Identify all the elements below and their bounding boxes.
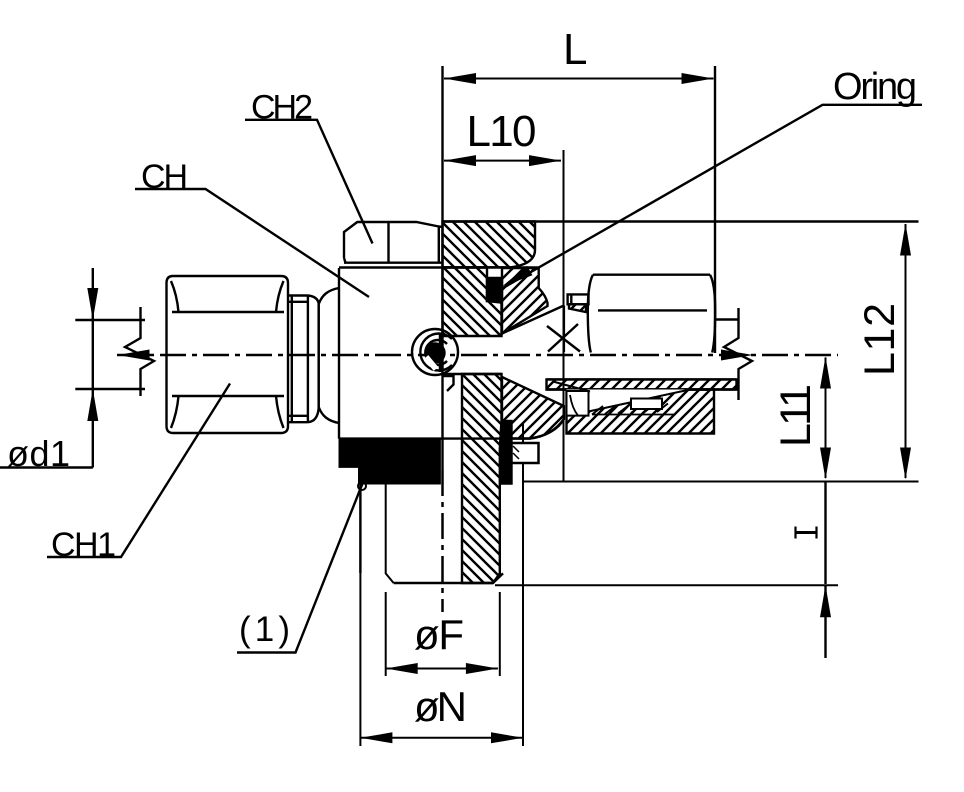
svg-text:L: L — [563, 25, 587, 74]
leader Oring — [503, 105, 922, 288]
arrow oF left — [386, 663, 418, 674]
leader CH2 — [245, 120, 373, 244]
dimension od1 line — [92, 268, 94, 468]
svg-text:L10: L10 — [467, 107, 537, 156]
wire: oN extension right — [522, 424, 524, 746]
stud right OD chamfer — [493, 573, 503, 583]
svg-text:L11: L11 — [772, 384, 820, 447]
svg-text:øN: øN — [414, 683, 467, 730]
right tube OD bottom — [547, 388, 737, 390]
left nut hex flat lines — [172, 312, 284, 396]
cone X detail — [547, 324, 580, 352]
stud bottom face — [394, 582, 493, 584]
dimension L — [444, 78, 714, 80]
svg-text:L12: L12 — [856, 303, 904, 376]
right tube bore line — [547, 378, 737, 380]
neck groove — [317, 304, 320, 409]
dimension L10 — [444, 160, 561, 162]
bore drill cone detail — [443, 376, 454, 391]
body bottom edge — [339, 419, 564, 439]
bolt cross-hole band bottom edge — [443, 373, 502, 375]
arrow L11 top — [820, 357, 831, 389]
ferrule wedge white — [567, 390, 691, 413]
arrow L11 bottom — [820, 448, 831, 480]
wire: extension line y=481.5 — [522, 481, 919, 483]
wire: extension line y=585.3 — [495, 584, 838, 586]
body lower right section hatched — [502, 377, 564, 439]
right tube wall band hatched — [547, 379, 737, 389]
left break arrow — [118, 350, 150, 361]
body left face — [338, 268, 340, 439]
nut thread sawtooth — [592, 404, 674, 415]
left swivel nut outline — [167, 276, 289, 433]
body right flange section hatched — [502, 268, 548, 334]
bolt head washer face — [344, 262, 443, 264]
wire: extension line L left / stud axis solid — [441, 66, 443, 470]
stud left OD line — [359, 484, 361, 573]
ferrule inner rect — [631, 399, 662, 410]
body top edge — [339, 266, 539, 268]
ferrule washer rect above — [568, 294, 589, 304]
right nut left face arc — [588, 275, 593, 353]
right tube OD top — [716, 318, 740, 320]
wire: oN extension left — [359, 484, 361, 746]
dimension oN line — [360, 737, 523, 739]
svg-text:CH2: CH2 — [251, 89, 313, 127]
svg-text:øF: øF — [414, 611, 464, 658]
black seal (1) — [340, 439, 440, 483]
svg-text:CH1: CH1 — [51, 526, 116, 564]
ferrule section bit — [569, 304, 586, 312]
arrow od1 top — [87, 288, 98, 320]
svg-text:Oring: Oring — [833, 66, 917, 108]
right nut right face arc — [710, 275, 715, 353]
O-ring seal black — [487, 278, 502, 301]
centerline horizontal axis — [117, 354, 838, 357]
arrow Oring leader — [499, 266, 532, 292]
svg-text:(1): (1) — [239, 610, 290, 649]
svg-text:CH: CH — [141, 158, 188, 196]
leader CH1 — [47, 384, 230, 558]
wire: oF extension right — [499, 592, 501, 676]
leader (1) — [237, 484, 363, 653]
right nut external top — [593, 274, 710, 276]
washer below centerline — [567, 391, 589, 416]
dimension L11 line — [825, 358, 827, 479]
left tube break line — [125, 307, 154, 396]
neck fillet curves — [308, 296, 319, 423]
bolt lower wall section hatched — [462, 374, 502, 583]
wire: extension line top y=221.5 — [443, 220, 919, 222]
arrow od1 bottom — [87, 389, 98, 421]
stud left root line — [386, 484, 394, 583]
svg-text:ød1: ød1 — [7, 433, 70, 474]
leader od1 underline — [0, 466, 93, 468]
left tube wall bottom — [75, 388, 145, 390]
label I rotated — [796, 527, 817, 539]
bolt head and shank section hatched — [443, 222, 536, 268]
arrow L left — [444, 73, 476, 84]
centerline vertical stud axis — [441, 470, 444, 612]
retaining seal right black Z — [502, 421, 512, 484]
right tube break line — [724, 308, 752, 400]
wire: extension line L10 right x=563.5 — [563, 150, 565, 482]
arrow L12 bottom — [900, 448, 911, 480]
leader CH — [135, 189, 369, 297]
arrow oN right — [491, 732, 523, 743]
neck band between nut and body — [288, 296, 308, 423]
left tube wall top — [75, 319, 145, 321]
cross-hole arcs on external half — [412, 329, 458, 375]
right break arrow — [721, 350, 753, 361]
dimension oF line — [386, 668, 498, 670]
bolt head hex edge — [387, 222, 389, 263]
body right face lower — [563, 406, 565, 419]
right nut section hatched — [567, 390, 715, 434]
arrow oF right — [466, 663, 498, 674]
arrow L right — [682, 73, 714, 84]
wire: extension line L right x=715 — [714, 66, 716, 353]
left nut chamfer arcs — [171, 281, 284, 428]
arrow L10 right — [529, 155, 561, 166]
right nut hex flat — [598, 309, 707, 311]
wire: oF extension left — [385, 592, 387, 676]
arrow L10 left — [444, 155, 476, 166]
body cone upper line — [502, 306, 564, 334]
arrow oN left — [360, 732, 392, 743]
dimension I line — [824, 482, 826, 585]
arrow I bottom outside — [820, 585, 831, 617]
bolt head CH2 external outline — [344, 222, 443, 263]
dimension L12 line — [905, 224, 907, 478]
body right face upper — [563, 306, 565, 353]
arrow L12 top — [900, 224, 911, 256]
